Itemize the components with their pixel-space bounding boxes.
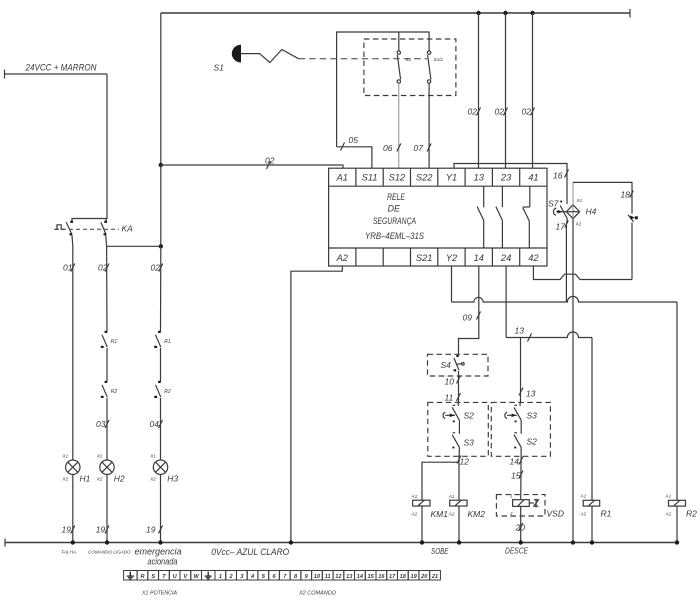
node junction dot 02 x160 y246 — [159, 244, 163, 248]
svg-text:X1: X1 — [96, 454, 103, 459]
lamp H4 diamond — [566, 198, 596, 227]
svg-text:H2: H2 — [114, 474, 125, 484]
svg-text:17: 17 — [556, 222, 566, 232]
svg-text:X1: X1 — [576, 198, 583, 203]
svg-text:COMANDO LIGADO: COMANDO LIGADO — [88, 550, 131, 555]
contact relay 23-24 — [496, 186, 503, 248]
wire S4 to SOBE box — [458, 371, 460, 402]
wire S1 stem and spring zigzag — [241, 50, 299, 63]
svg-text:KA: KA — [122, 224, 134, 234]
wire Y1 to S7 horizontal — [454, 164, 567, 205]
svg-text:X2: X2 — [62, 477, 69, 482]
svg-text:13: 13 — [526, 389, 536, 399]
svg-text:11: 11 — [325, 574, 331, 580]
svg-text:11: 11 — [445, 393, 454, 403]
terminal strip X1/X2 — [124, 571, 441, 581]
relay coil KM2 — [448, 494, 485, 519]
wire 02 drop to cell 13 — [478, 13, 480, 168]
svg-text:42: 42 — [528, 253, 539, 263]
box SOBE buttons dashed — [428, 402, 489, 456]
svg-text:10: 10 — [314, 574, 321, 580]
svg-text:VSD: VSD — [547, 509, 564, 519]
contact R2 in H2 column — [101, 381, 118, 398]
node dot R2 rail — [675, 540, 679, 544]
wire H3 between contacts — [160, 348, 162, 382]
wire 02 drop to cell 41 — [532, 13, 534, 168]
wire 02 junction horizontal to x160 — [107, 245, 161, 247]
svg-text:13: 13 — [474, 173, 485, 183]
node bottom rail left tick — [4, 539, 6, 547]
svg-text:H4: H4 — [586, 207, 597, 217]
node dot A2 rail — [289, 540, 293, 544]
wire S3 branch drop — [520, 338, 522, 403]
svg-text:10: 10 — [445, 377, 455, 387]
svg-text:S3: S3 — [527, 411, 538, 421]
svg-text:RELE: RELE — [387, 192, 406, 202]
svg-text:12: 12 — [460, 457, 470, 467]
svg-text:24: 24 — [500, 253, 511, 263]
svg-text:X2: X2 — [149, 477, 156, 482]
node 24VCC left terminal tick — [4, 70, 6, 79]
contact S7 — [548, 199, 568, 303]
svg-text:YRB–4EML–31S: YRB–4EML–31S — [365, 231, 424, 241]
wire 06 grey S1 pole1 to S12 — [398, 83, 400, 168]
wire 24VCC drop to KA — [72, 74, 107, 222]
wire 14 to 09 branch — [459, 266, 479, 354]
contact relay 41-42 NC — [523, 186, 530, 248]
relay coil R2 — [665, 494, 698, 519]
svg-text:R1: R1 — [111, 339, 118, 345]
svg-text:Y2: Y2 — [446, 253, 458, 263]
wire 42 down and loop bottom with hop — [533, 266, 632, 280]
contact S3 SOBE — [452, 420, 474, 448]
svg-text:X2: X2 — [575, 222, 582, 227]
contact S1 pole1 — [397, 51, 411, 83]
svg-text:13: 13 — [346, 574, 353, 580]
lamp H2 — [96, 454, 125, 484]
svg-text:04: 04 — [150, 419, 160, 429]
wire bottom rail 0Vcc — [5, 542, 677, 544]
svg-text:R1: R1 — [164, 339, 171, 345]
op-amp relay block RELE DE SEGURANCA — [329, 168, 547, 266]
wire KM2 to rail — [458, 506, 460, 543]
wire 02 horizontal to relay A1 — [161, 165, 343, 168]
button S1 mushroom head — [232, 45, 241, 63]
svg-text:19: 19 — [410, 574, 417, 580]
node junction dot top rail x532.5 — [530, 11, 534, 15]
svg-text:A2: A2 — [665, 512, 672, 517]
svg-text:06: 06 — [383, 143, 393, 153]
wire KM branch — [422, 462, 459, 500]
svg-text:S1: S1 — [406, 57, 412, 62]
svg-text:H1: H1 — [80, 474, 91, 484]
wire 02 vertical 165 to 246 — [160, 165, 162, 246]
svg-text:14: 14 — [510, 457, 520, 467]
svg-text:R2: R2 — [164, 389, 171, 395]
svg-text:acionada: acionada — [148, 557, 178, 567]
svg-text:S11: S11 — [362, 173, 378, 183]
svg-text:14: 14 — [357, 574, 364, 580]
svg-text:A1: A1 — [411, 494, 418, 499]
svg-text:13: 13 — [515, 326, 525, 336]
svg-text:T: T — [162, 574, 166, 580]
wire KM2 feed — [458, 462, 460, 500]
contact KA right pole — [101, 219, 107, 236]
contact S2 SOBE — [443, 402, 474, 420]
relay coil KM1 — [411, 494, 449, 519]
box S1 dashed enclosure — [364, 39, 456, 96]
svg-text:A2: A2 — [336, 253, 349, 263]
svg-text:SEGURANÇA: SEGURANÇA — [373, 216, 416, 226]
svg-text:02: 02 — [495, 107, 505, 117]
svg-text:A2: A2 — [411, 512, 418, 517]
box VSD dashed — [496, 495, 545, 516]
wire 01 column below KA left — [71, 235, 74, 460]
svg-text:KM1: KM1 — [431, 509, 449, 519]
svg-text:23: 23 — [500, 173, 512, 183]
svg-text:R1: R1 — [601, 509, 612, 519]
svg-text:SOBE: SOBE — [431, 546, 449, 556]
relay coil VSD — [509, 494, 564, 519]
relay coil R1 — [580, 494, 612, 519]
wire VSD to rail — [520, 506, 522, 542]
wire 05 from S1 box to S11 — [337, 147, 372, 168]
svg-text:02: 02 — [468, 107, 478, 117]
wire 24VCC rail — [5, 73, 108, 75]
wire left outer vertical 02 from top rail down — [160, 13, 162, 165]
svg-text:R2: R2 — [686, 509, 697, 519]
svg-text:S3: S3 — [464, 438, 475, 448]
wire 02 drop to cell 23 — [505, 13, 507, 168]
svg-text:1: 1 — [510, 494, 513, 499]
svg-text:A1: A1 — [580, 494, 587, 499]
wire R1 drop — [591, 338, 593, 501]
node dot H3 rail — [158, 540, 162, 544]
node dot VSD rail — [519, 540, 523, 544]
svg-text:A1: A1 — [336, 173, 348, 183]
wire top rail 02 — [161, 12, 630, 14]
svg-text:A2: A2 — [580, 512, 587, 517]
contact S1 pole2 — [427, 51, 443, 83]
svg-text:H3: H3 — [167, 474, 178, 484]
svg-text:R2: R2 — [111, 389, 118, 395]
svg-text:S22: S22 — [416, 173, 433, 183]
svg-text:S2: S2 — [527, 437, 538, 447]
node junction dot top rail x478.5 — [476, 11, 480, 15]
svg-text:18: 18 — [400, 574, 407, 580]
svg-text:S2: S2 — [464, 411, 475, 421]
svg-text:24VCC + MARRON: 24VCC + MARRON — [25, 63, 97, 73]
wire H3 lamp to rail — [160, 474, 162, 542]
node dot R1 rail — [590, 540, 594, 544]
svg-text:02: 02 — [265, 156, 275, 166]
svg-text:A1: A1 — [448, 494, 455, 499]
svg-text:20: 20 — [420, 574, 428, 580]
wire 02 column below KA right to junction — [106, 235, 107, 331]
svg-text:05: 05 — [349, 135, 359, 145]
svg-text:S1: S1 — [214, 63, 225, 73]
node dot KM2 rail — [457, 540, 461, 544]
svg-text:19: 19 — [62, 525, 72, 535]
svg-text:02: 02 — [522, 107, 532, 117]
contact R2 in H3 column — [154, 381, 171, 398]
contact S3 DESCE — [505, 402, 537, 420]
svg-text:03: 03 — [96, 419, 106, 429]
wire DESCE box exit — [520, 447, 523, 499]
svg-text:17: 17 — [389, 574, 396, 580]
wire KM1 to rail — [421, 506, 423, 543]
svg-text:W: W — [193, 574, 199, 580]
contact S4 — [441, 355, 465, 371]
svg-text:DESCE: DESCE — [505, 545, 528, 555]
svg-text:12: 12 — [335, 574, 342, 580]
svg-text:16: 16 — [378, 574, 385, 580]
wire R2 to rail — [676, 506, 678, 542]
svg-text:14: 14 — [474, 253, 484, 263]
svg-text:19: 19 — [146, 525, 156, 535]
box S4 dashed — [428, 354, 489, 376]
wire 07 S1 pole2 to S22 — [428, 83, 430, 168]
node dot KM1 rail — [420, 540, 424, 544]
contact relay 13-14 — [477, 186, 484, 248]
wire R1 to rail — [591, 506, 593, 542]
wire Y2 down — [451, 266, 453, 302]
node junction dot top rail x505.5 — [503, 11, 507, 15]
svg-text:FALHA: FALHA — [62, 550, 76, 555]
wire S1 link dashed — [299, 58, 427, 60]
svg-text:15: 15 — [511, 471, 521, 481]
svg-text:KM2: KM2 — [468, 509, 486, 519]
svg-text:21: 21 — [431, 574, 438, 580]
box DESCE buttons dashed — [491, 402, 550, 456]
svg-text:DE: DE — [388, 204, 401, 214]
svg-text:0Vcc– AZUL CLARO: 0Vcc– AZUL CLARO — [211, 547, 290, 558]
svg-text:S7: S7 — [548, 199, 559, 209]
svg-text:A1: A1 — [665, 494, 672, 499]
svg-text:X2 COMANDO: X2 COMANDO — [298, 591, 336, 597]
wire A2 to 0Vcc — [291, 266, 342, 543]
wire S1 box top feed — [337, 32, 430, 147]
wire Y2 horizontal to R2 with hops — [452, 296, 678, 302]
wire H4 X2 down to rail — [572, 219, 574, 543]
wire 24 down to 13 branch — [505, 266, 507, 338]
wire H2 between contacts — [106, 348, 108, 382]
node dot H2 rail — [105, 540, 109, 544]
svg-text:S12: S12 — [389, 173, 406, 183]
svg-text:S4: S4 — [441, 360, 452, 370]
svg-text:19: 19 — [96, 525, 106, 535]
wire H2 down to lamp — [106, 398, 108, 460]
svg-text:S1/2: S1/2 — [434, 57, 444, 62]
svg-text:X1 POTENCIA: X1 POTENCIA — [141, 591, 178, 597]
node dot H4 rail — [571, 540, 575, 544]
contact 18 on loop right — [621, 190, 638, 280]
node junction dot 02 x160 y165 — [159, 163, 163, 167]
contact S2 DESCE — [514, 420, 537, 448]
contact KA left pole — [55, 221, 74, 236]
contact R1 in H2 column — [101, 331, 118, 348]
wire H3 column 246 to contacts — [160, 246, 162, 331]
svg-text:X1: X1 — [62, 454, 69, 459]
wire S1 contact top lead — [398, 32, 400, 51]
svg-text:09: 09 — [463, 313, 473, 323]
wire H3 down to lamp — [160, 398, 162, 460]
wire KA mechanical link dashed — [55, 228, 119, 230]
lamp H3 — [149, 454, 178, 484]
wire H2 lamp to rail — [106, 474, 108, 542]
svg-text:S21: S21 — [416, 253, 433, 263]
wire 13 horizontal to R1 with hop — [506, 332, 592, 338]
svg-text:15: 15 — [367, 574, 374, 580]
node top rail right terminal tick — [629, 9, 631, 18]
lamp H1 — [62, 454, 91, 484]
wire H4 X1 up and loop top — [572, 182, 574, 204]
svg-text:X1: X1 — [149, 454, 156, 459]
wire SOBE box exit — [458, 447, 460, 462]
svg-text:16: 16 — [553, 171, 563, 181]
svg-text:02: 02 — [98, 263, 108, 273]
svg-text:X2: X2 — [96, 477, 103, 482]
svg-text:2: 2 — [509, 511, 513, 516]
node dot H1 rail — [71, 540, 75, 544]
svg-text:1: 1 — [219, 574, 222, 580]
svg-text:41: 41 — [528, 173, 538, 183]
svg-text:A2: A2 — [448, 512, 455, 517]
svg-text:emergencia: emergencia — [135, 547, 182, 557]
wire H1 lamp to rail — [72, 474, 74, 542]
wire R2 drop — [676, 302, 678, 500]
svg-text:18: 18 — [621, 190, 631, 200]
svg-text:Y1: Y1 — [446, 173, 457, 183]
svg-text:07: 07 — [414, 143, 424, 153]
svg-text:R: R — [140, 574, 144, 580]
contact R1 in H3 column — [154, 331, 171, 348]
svg-text:S: S — [151, 574, 155, 580]
